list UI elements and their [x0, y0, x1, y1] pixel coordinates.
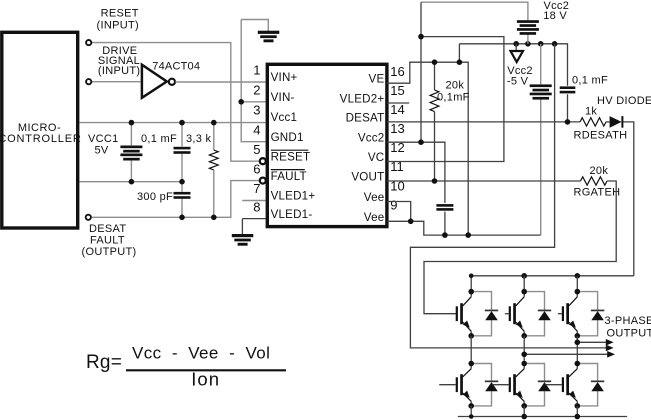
wire inverter output to pin 1 — [175, 81, 265, 83]
junction rail/leg1 — [469, 274, 474, 279]
wire pin 2 VIN- branch — [241, 101, 266, 103]
gate stub Q4 — [439, 384, 456, 386]
wire phase midpoint — [470, 336, 472, 364]
wire pin 10 Vee — [387, 202, 411, 222]
wire -5V stub — [515, 44, 517, 51]
diode (freewheel) for transistor IGBT Q4 (bottom row leg 1) — [471, 364, 491, 382]
junction VE/20k — [432, 59, 438, 65]
wire 20k top — [434, 62, 436, 90]
diode (freewheel) for transistor IGBT Q6 (bottom row leg 3) — [577, 364, 597, 382]
svg-text:Ion: Ion — [191, 368, 220, 389]
resistor 3,3 k — [209, 150, 218, 170]
junction VE/Vcc2 rail — [457, 59, 463, 65]
wire battery top stub — [130, 123, 132, 146]
gate stub Q5 — [492, 384, 509, 386]
svg-text:FAULT: FAULT — [90, 235, 125, 247]
wire pin 11 VOUT — [387, 180, 581, 182]
junction rail/leg1 — [469, 414, 474, 419]
svg-text:15: 15 — [390, 83, 404, 98]
wire cap C1 top stub — [181, 123, 183, 147]
svg-text:VIN-: VIN- — [271, 91, 295, 104]
junction pin13/vertical — [418, 139, 424, 145]
junction pin9/pin10 — [408, 219, 414, 225]
junction rail/VE-phase link — [552, 41, 558, 47]
svg-text:0,1mF: 0,1mF — [437, 91, 470, 103]
svg-text:RESET: RESET — [101, 8, 139, 20]
transistor IGBT Q2 (top row leg 2) — [523, 292, 525, 297]
battery VCC1 5V — [120, 146, 142, 149]
junction rail/cap — [538, 41, 544, 47]
svg-text:FAULT: FAULT — [271, 170, 307, 183]
transistor IGBT Q4 (bottom row leg 1) — [470, 364, 472, 369]
arrow phase B — [606, 345, 614, 352]
svg-text:(INPUT): (INPUT) — [97, 19, 139, 31]
wire pin 8 to ground — [242, 218, 265, 220]
gate stub Q2 — [505, 313, 509, 315]
svg-text:300 pF: 300 pF — [137, 191, 173, 203]
svg-text:VLED2+: VLED2+ — [340, 93, 385, 106]
svg-text:16: 16 — [390, 64, 404, 79]
wire phase A output — [577, 341, 608, 343]
wire RGATEH to IGBT1 gate — [424, 181, 616, 314]
wire ground net to pin 4 GND1 — [241, 20, 266, 142]
svg-text:7: 7 — [253, 181, 260, 196]
wire Vcc2 rail to VE — [458, 44, 460, 62]
wire cap C1 bottom / C2 top — [181, 154, 183, 192]
ground (logic, top) — [258, 31, 280, 34]
wire electrolytic top stub — [540, 44, 542, 84]
op-amp U1 gate driver IC body — [267, 64, 387, 226]
svg-text:RGATEH: RGATEH — [574, 187, 621, 199]
capacitor 0,1mF (Vcc2-Vee) — [436, 204, 453, 207]
svg-text:Vcc2: Vcc2 — [358, 132, 385, 145]
wire HV diode to DC+ rail — [623, 122, 633, 276]
wire pin 16 VE net — [387, 62, 468, 235]
junction leg3/output — [575, 340, 581, 346]
wire RESET input to pin 5 — [92, 43, 259, 162]
wire 20k bottom — [434, 112, 436, 182]
gate stub Q3 — [558, 313, 562, 315]
junction rail/leg2 — [521, 273, 527, 279]
capacitor 0,1 mF (VCC1) — [174, 147, 191, 150]
wire Vcc2 bottom rail — [459, 44, 567, 86]
svg-text:HV DIODE: HV DIODE — [597, 95, 651, 107]
arrow phase A — [606, 339, 614, 346]
wire phase midpoint — [523, 336, 525, 364]
junction VCC1/R3.3k — [211, 120, 217, 126]
svg-text:Vee: Vee — [364, 191, 385, 204]
junction Vee/cap — [442, 232, 448, 238]
wire battery bottom stub — [527, 34, 529, 44]
wire resistor 3,3k bottom — [213, 170, 215, 217]
junction rail/leg3 — [575, 414, 581, 420]
wire to top ground — [241, 20, 268, 32]
svg-text:VCC1: VCC1 — [88, 133, 119, 145]
diode (freewheel) for transistor IGBT Q1 (top row leg 1) — [471, 292, 491, 311]
svg-text:RDESATH: RDESATH — [574, 130, 628, 142]
junction Vee/VE?? — [465, 232, 471, 238]
svg-text:VLED1+: VLED1+ — [271, 190, 316, 203]
junction VC link — [418, 34, 424, 40]
junction leg2/output — [521, 352, 527, 358]
junction rail/leg2 — [521, 414, 527, 420]
wire electrolytic bottom to Vee line — [540, 99, 542, 235]
junction fault/300pF — [179, 215, 185, 221]
svg-text:3,3 k: 3,3 k — [186, 133, 212, 145]
transistor IGBT Q3 (top row leg 3) — [576, 292, 578, 297]
svg-text:74ACT04: 74ACT04 — [152, 61, 200, 73]
wire Vcc2-rail to phase output (VE link) — [410, 44, 608, 348]
svg-text:4: 4 — [253, 122, 260, 137]
junction return/C1-C2 — [179, 179, 185, 185]
wire phase midpoint — [576, 336, 578, 364]
svg-text:Vee: Vee — [364, 211, 385, 224]
junction VIN-/GND1 — [238, 99, 244, 105]
diode (freewheel) for transistor IGBT Q3 (top row leg 3) — [577, 292, 597, 311]
capacitor 300 pF — [174, 192, 191, 195]
transistor IGBT Q6 (bottom row leg 3) — [576, 364, 578, 369]
svg-text:DESAT: DESAT — [89, 223, 126, 235]
pin 5 bubble RESET — [260, 158, 266, 164]
wire VC/Vcc2 vertical — [420, 2, 422, 142]
diode (freewheel) for transistor IGBT Q5 (bottom row leg 2) — [524, 364, 544, 382]
arrow phase C — [607, 351, 615, 358]
svg-text:8: 8 — [253, 199, 260, 214]
svg-text:Rg=: Rg= — [86, 352, 122, 373]
svg-text:5: 5 — [253, 142, 260, 157]
junction rail/battery — [525, 41, 531, 47]
wire cap 300 pF bottom stub — [181, 199, 183, 218]
svg-text:Vcc1: Vcc1 — [271, 111, 298, 124]
svg-text:9: 9 — [390, 197, 397, 212]
terminal RESET (INPUT) — [86, 40, 91, 45]
wire pin 12 VC loop — [387, 37, 504, 162]
battery Vcc2 18V — [517, 20, 539, 23]
terminal DRIVE SIGNAL (INPUT) — [86, 79, 91, 84]
wire VCC1 rail to pin 3 — [80, 122, 266, 124]
wire pin 13 Vcc2 to cap — [387, 142, 445, 203]
svg-text:14: 14 — [390, 102, 404, 117]
junction rail/-5V — [513, 41, 519, 47]
junction rail/leg3 — [575, 273, 581, 279]
svg-text:(OUTPUT): (OUTPUT) — [82, 246, 137, 258]
svg-text:VE: VE — [369, 73, 385, 86]
svg-text:VLED1-: VLED1- — [271, 208, 313, 221]
capacitor electrolytic (Vcc2) — [530, 84, 552, 87]
svg-text:VC: VC — [368, 151, 385, 164]
terminal DESAT FAULT (OUTPUT) — [86, 215, 91, 220]
junction return/battery — [129, 179, 135, 185]
svg-text:(INPUT): (INPUT) — [98, 65, 140, 77]
svg-text:0,1 mF: 0,1 mF — [141, 133, 177, 145]
svg-text:1: 1 — [253, 63, 260, 78]
svg-text:VOUT: VOUT — [351, 171, 384, 184]
resistor 20k (VE-VOUT) — [430, 90, 439, 112]
svg-text:OUTPUT: OUTPUT — [607, 328, 651, 340]
gate stub Q6 — [545, 384, 562, 386]
svg-text:0,1 mF: 0,1 mF — [572, 74, 608, 86]
wire VCC1 return rail — [80, 181, 183, 183]
wire phase C output — [524, 353, 609, 355]
svg-text:20k: 20k — [446, 79, 465, 91]
resistor 1k RDESATH — [580, 118, 606, 126]
svg-text:18 V: 18 V — [543, 10, 567, 22]
svg-text:3: 3 — [253, 103, 260, 118]
DC- bus rail — [458, 416, 627, 418]
pin 6 bubble FAULT — [260, 178, 266, 184]
wire DESAT FAULT output to pin 6 — [92, 181, 259, 218]
junction VCC1/battery — [129, 120, 135, 126]
wire DRIVE SIGNAL to inverter — [92, 81, 141, 83]
wire pin 7 stub — [242, 200, 266, 202]
resistor 20k RGATEH — [581, 177, 608, 185]
svg-text:-5 V: -5 V — [507, 75, 529, 87]
DC+ bus rail — [471, 275, 634, 277]
svg-text:CONTROLLER: CONTROLLER — [0, 133, 82, 145]
wire resistor 3,3k top — [213, 123, 215, 150]
svg-text:20k: 20k — [590, 165, 609, 177]
wire battery bottom stub — [130, 160, 132, 181]
capacitor 0,1 mF (DESAT) — [560, 86, 576, 89]
microcontroller box — [2, 32, 78, 228]
junction DESAT/cap — [565, 119, 571, 125]
power symbol Vcc2 -5V (open triangle) — [511, 51, 524, 62]
svg-text:GND1: GND1 — [271, 131, 304, 144]
diode (freewheel) for transistor IGBT Q2 (top row leg 2) — [524, 292, 544, 311]
svg-text:RESET: RESET — [271, 150, 311, 163]
inverter 74ACT04 — [142, 65, 167, 98]
ground (pin 8) — [232, 234, 254, 237]
junction VOUT/20k — [432, 178, 438, 184]
svg-text:VIN+: VIN+ — [271, 71, 298, 84]
junction fault/R3.3k — [211, 215, 217, 221]
wire pin 15 VLED2+ stub — [387, 102, 409, 104]
wire pin 14 DESAT — [387, 121, 580, 123]
svg-text:5V: 5V — [95, 144, 109, 156]
diode HV (right-pointing) — [610, 116, 622, 128]
svg-text:2: 2 — [253, 83, 260, 98]
wire Vcc2 battery top link — [421, 2, 528, 20]
wire pin 9 Vee line — [387, 221, 541, 235]
transistor IGBT Q5 (bottom row leg 2) — [523, 364, 525, 369]
svg-text:3-PHASE: 3-PHASE — [605, 315, 651, 327]
svg-text:1k: 1k — [585, 105, 597, 117]
svg-text:Vcc - Vee - Vol: Vcc - Vee - Vol — [132, 344, 270, 363]
svg-text:DESAT: DESAT — [346, 111, 385, 124]
junction VCC1/C1 — [179, 120, 185, 126]
transistor IGBT Q1 (top row leg 1) — [470, 292, 472, 297]
svg-text:13: 13 — [390, 121, 404, 136]
